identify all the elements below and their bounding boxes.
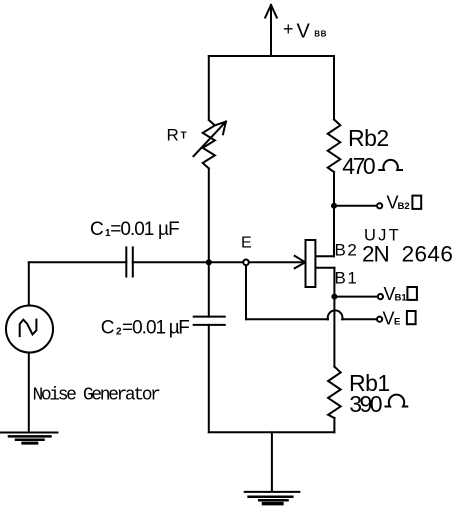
svg-text:T: T (181, 131, 187, 142)
svg-text:=0.01: =0.01 (110, 219, 154, 240)
svg-text:390: 390 (349, 391, 382, 417)
svg-text:B1: B1 (335, 269, 359, 288)
svg-text:=0.01: =0.01 (122, 318, 166, 339)
svg-text:C: C (101, 318, 115, 339)
svg-text:2646: 2646 (402, 242, 454, 267)
svg-text:2N: 2N (362, 242, 389, 267)
svg-text:V: V (297, 20, 311, 42)
svg-text:470: 470 (342, 153, 375, 179)
svg-text:B2: B2 (398, 201, 410, 212)
svg-text:B2: B2 (335, 240, 359, 259)
svg-text:B1: B1 (395, 293, 408, 304)
svg-text:Noise Generator: Noise Generator (33, 386, 161, 406)
svg-text:µF: µF (158, 219, 179, 240)
svg-text:C: C (90, 219, 104, 240)
svg-text:R: R (167, 126, 179, 145)
svg-text:E: E (394, 317, 400, 328)
svg-text:Rb2: Rb2 (348, 125, 389, 151)
svg-text:µF: µF (169, 318, 189, 339)
svg-text:V: V (383, 309, 395, 329)
svg-text:+: + (283, 19, 294, 39)
svg-text:BB: BB (314, 30, 327, 39)
svg-text:E: E (241, 235, 252, 252)
